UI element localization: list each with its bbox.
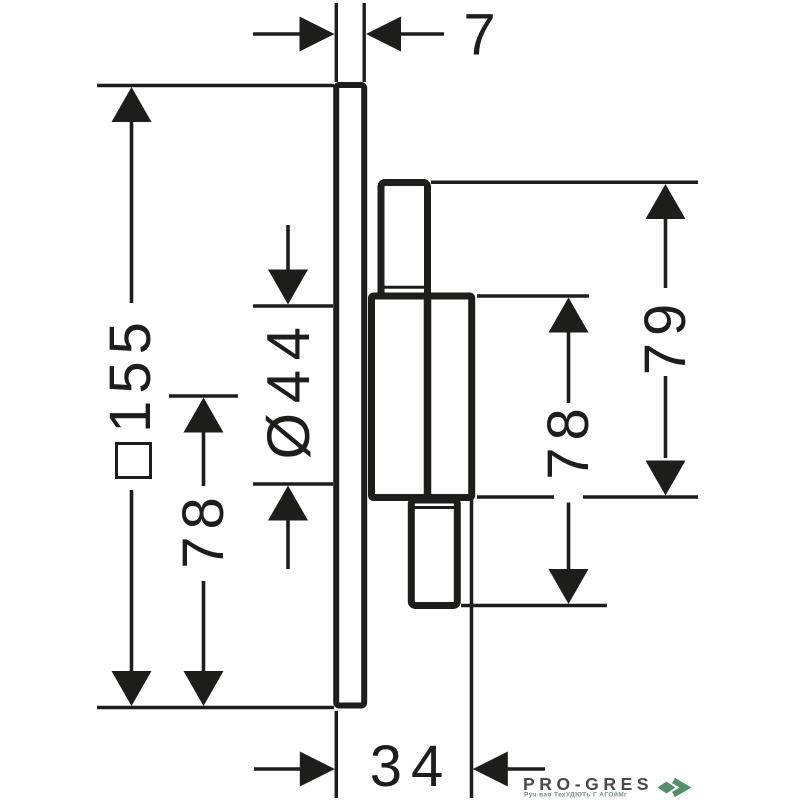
dimension dia44: upper arrowhead (points down) <box>268 270 308 305</box>
extension line below plate left face (for 34) <box>335 711 339 798</box>
body outline <box>372 296 472 498</box>
svg-text:78: 78 <box>536 401 601 480</box>
dimension dia44: lower boundary line <box>253 482 333 486</box>
extension line right of body top <box>477 294 589 298</box>
extension line top-left (y=85.5 from x97 to plate) <box>97 84 334 88</box>
dimension 7: right leader <box>401 32 444 35</box>
dimension square155: lower line <box>130 490 134 672</box>
dimension 78 left: lower line <box>202 581 206 672</box>
body inner divider (handle column) <box>424 293 432 494</box>
dimension dia44: upper boundary line <box>253 304 333 308</box>
svg-text:34: 34 <box>370 734 453 799</box>
top handle parting line <box>382 286 426 289</box>
dimension 7: left leader <box>253 32 301 35</box>
extension line above plate left face <box>335 3 338 82</box>
dimension dia44: upper approach line <box>286 225 290 272</box>
dimension square155: top arrowhead <box>112 87 152 122</box>
dimension 78 right: top arrowhead <box>549 298 589 333</box>
extension line below body right face (for 34) <box>470 500 474 798</box>
dimension square155: upper line <box>130 120 134 303</box>
dimension 34: left leader <box>254 767 301 770</box>
svg-text:Руч вао ТехУДЮТь Г АГОйМг: Руч вао ТехУДЮТь Г АГОйМг <box>524 791 627 799</box>
svg-text:7: 7 <box>463 3 495 68</box>
dimension 78 right: lower line <box>567 503 571 572</box>
logo green diamond <box>658 782 676 794</box>
svg-text:155: 155 <box>98 315 163 433</box>
extension line right of body bottom (right part) <box>583 495 698 499</box>
dimension 79: top arrowhead <box>646 184 686 219</box>
dimension 78 right: bottom arrowhead <box>549 569 589 604</box>
dimension 7: left arrowhead <box>300 17 335 52</box>
logo green chevron <box>674 781 686 795</box>
plate (escutcheon side view) <box>336 85 364 706</box>
extension line right of body bottom (left part) <box>477 495 554 499</box>
svg-text:79: 79 <box>633 297 698 376</box>
dimension 7: right arrowhead <box>366 17 401 52</box>
extension line right of bottom handle bottom <box>461 604 607 608</box>
bottom handle parting line <box>414 506 455 509</box>
dimension 78 right: upper line <box>567 330 571 403</box>
dimension 78 left: top arrowhead <box>184 398 224 433</box>
top handle outline <box>381 183 428 297</box>
svg-text:78: 78 <box>171 490 236 569</box>
dimension 78 left: bottom arrowhead <box>184 671 224 706</box>
dimension square155: bottom arrowhead <box>112 671 152 706</box>
extension line above plate right face <box>363 3 366 82</box>
dimension square155: square symbol <box>117 444 151 478</box>
extension line right of top handle top <box>431 181 698 185</box>
dimension 79: upper line <box>664 217 668 288</box>
dimension 34: left arrowhead <box>300 752 335 787</box>
dimension 79: bottom arrowhead <box>646 461 686 496</box>
dimension 78 left: top tick line <box>169 394 238 398</box>
dimension dia44: lower tail line <box>286 519 290 569</box>
dimension 78 left: upper line <box>202 430 206 486</box>
dimension dia44: lower arrowhead (points up) <box>268 486 308 521</box>
dimension 79: lower line <box>664 376 668 458</box>
extension line bottom-left (y=707.5 from x97 to plate) <box>97 706 334 710</box>
svg-text:Ø44: Ø44 <box>255 318 322 460</box>
dimension 34: right leader <box>507 767 545 770</box>
dimension 34: right arrowhead <box>473 752 508 787</box>
bottom handle outline <box>411 500 457 606</box>
